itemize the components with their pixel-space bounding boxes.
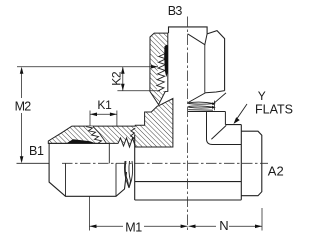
thread runout marks near body shoulder (left port) — [131, 128, 136, 141]
K1 dimension — [89, 111, 91, 127]
body hex flat boundary (bottom half) — [135, 181, 242, 183]
svg-text:N: N — [219, 218, 228, 233]
svg-text:B1: B1 — [29, 144, 44, 158]
branch thread channel (white relief) — [157, 54, 168, 91]
centerline horizontal run — [62, 162, 268, 164]
svg-text:FLATS: FLATS — [255, 103, 293, 117]
body shoulder line — [134, 135, 136, 200]
hex corner edge — [224, 112, 226, 125]
B1 extension line (port centerline stub) — [17, 162, 50, 164]
centerline vertical branch — [187, 17, 189, 233]
M2 top extension line with arrow — [17, 66, 158, 68]
svg-text:Y: Y — [258, 89, 266, 103]
svg-text:K1: K1 — [97, 98, 112, 112]
branch locknut outline right — [207, 31, 225, 91]
male end cap A2 (right snout) — [241, 131, 261, 196]
crush washer wave 2 — [188, 106, 214, 108]
conical spring washer squiggle (left port) strand 1 — [125, 161, 130, 188]
washer outer edge — [213, 101, 215, 111]
svg-text:B3: B3 — [168, 4, 183, 18]
O-ring seal left port (black) — [67, 139, 96, 143]
crush washer wave 1 — [188, 102, 214, 104]
N dimension — [261, 208, 263, 231]
svg-text:A2: A2 — [268, 163, 284, 178]
washer pinch knot 1 — [212, 102, 215, 105]
body hex right edge — [240, 125, 242, 200]
body boss-to-hex transition with fillet — [207, 112, 242, 145]
nut skirt right edge — [108, 143, 110, 163]
nut skirt bottom of section band — [48, 142, 109, 144]
Y FLATS leader arrow — [235, 104, 247, 122]
body section hatch (corner + left port nut) — [48, 99, 173, 148]
svg-text:M2: M2 — [15, 99, 32, 113]
svg-text:K2: K2 — [110, 71, 124, 86]
nut skirt left edge — [48, 143, 50, 163]
conical spring washer squiggle strand 2 — [129, 161, 133, 188]
branch stud tube top face — [169, 27, 208, 34]
nut hex corner line left — [65, 163, 67, 196]
body hex bottom edge — [135, 199, 242, 201]
washer pinch knot 2 — [212, 106, 216, 109]
hex chamfer diagonal — [211, 125, 226, 139]
branch locknut external view (right half) top chamfer V-notch — [188, 34, 208, 45]
svg-text:M1: M1 — [125, 220, 142, 234]
hex top plane — [225, 124, 241, 126]
left port nut hex (bottom external view) — [49, 163, 126, 196]
thread engagement sawtooth (left port nut-body) — [86, 126, 107, 143]
M2 dimension line — [21, 69, 23, 98]
branch thread sawtooth — [157, 53, 167, 91]
M1 dimension — [89, 196, 91, 230]
branch locknut section hatch (left half of vertical branch) — [150, 33, 168, 105]
O-ring seal branch (black) — [164, 45, 168, 77]
nut hex corner line right — [115, 163, 117, 196]
crush washer cone edge under branch nut — [214, 93, 226, 103]
branch locknut hex corner line — [204, 45, 206, 93]
K2 dimension — [117, 90, 160, 92]
crush washer seat line — [188, 109, 213, 112]
branch thread minor-diameter line — [167, 72, 169, 92]
body top surface right of branch — [188, 111, 226, 113]
branch locknut bottom face — [188, 91, 224, 103]
